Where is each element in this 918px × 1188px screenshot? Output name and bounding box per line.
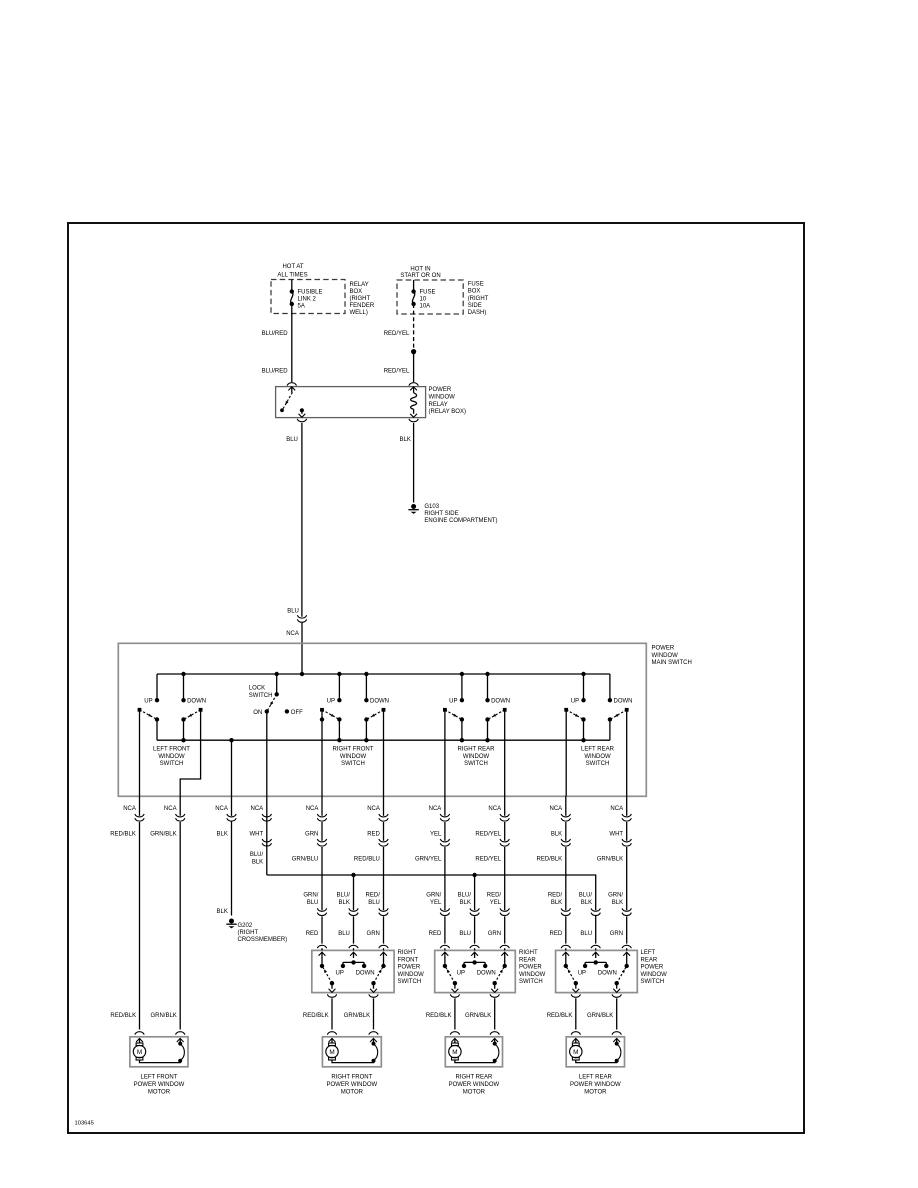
svg-text:BLU/: BLU/ [250, 852, 264, 858]
wire: DOWN contact to common (right front) [365, 720, 367, 741]
wire: DOWN contact to common (left front) [183, 720, 185, 741]
splice node on RED/YEL wire [411, 349, 416, 354]
svg-text:BLK: BLK [339, 900, 350, 906]
svg-text:START OR ON: START OR ON [400, 273, 440, 279]
left rear power window switch middle input pin [595, 948, 597, 950]
left rear power window motor left pin arrow [572, 1038, 579, 1042]
svg-text:YEL: YEL [430, 900, 442, 906]
node: extra junction on right-front left wire [320, 717, 324, 721]
svg-text:LEFT: LEFT [641, 950, 656, 956]
right rear power window switch box [435, 950, 516, 992]
left front switch: DOWN feed wire [183, 674, 185, 700]
connectors at sub switch inputs [317, 945, 326, 948]
svg-text:OFF: OFF [291, 710, 303, 716]
node: DOWN tap on bus (right rear) [485, 672, 489, 676]
wire: UP contact to common (right rear) [461, 720, 463, 741]
right front switch: DOWN arm [382, 708, 386, 712]
svg-text:RED/YEL: RED/YEL [475, 856, 501, 862]
svg-text:DOWN: DOWN [491, 698, 510, 704]
svg-text:RED/YEL: RED/YEL [475, 831, 501, 837]
wire BLU/BLK drop to right rear switch [474, 875, 476, 910]
right rear switch: UP arm [443, 708, 447, 712]
right front power window motor armature symbol M [329, 1043, 336, 1046]
wire BLU/RED from fusible link to relay [291, 304, 293, 382]
node: UP tap on bus (right rear) [460, 672, 464, 676]
svg-text:RIGHT: RIGHT [398, 950, 417, 956]
right front power window switch left input pin [321, 948, 323, 950]
svg-text:DOWN: DOWN [356, 970, 375, 976]
svg-text:SWITCH: SWITCH [641, 979, 665, 985]
relay coil [411, 393, 417, 409]
connectors at right front power window switch outputs [327, 994, 336, 997]
svg-text:GRN/BLK: GRN/BLK [597, 856, 623, 862]
svg-text:BLU: BLU [307, 900, 319, 906]
lock switch ON contact [265, 709, 269, 713]
left front power window motor left pin arrow [136, 1038, 143, 1042]
svg-text:UP: UP [457, 970, 465, 976]
svg-text:BLK: BLK [612, 900, 623, 906]
left rear power window switch right arm [617, 967, 626, 983]
right rear power window switch DOWN contact [483, 964, 487, 968]
svg-text:GRN: GRN [610, 931, 623, 937]
fuse 10 10A [411, 289, 415, 293]
right rear power window motor internal wire [455, 1060, 495, 1063]
inline connectors row 2 (wires 4-10) [262, 839, 271, 842]
ground G103 [411, 504, 416, 509]
right front power window switch UP/DOWN feed bar [343, 962, 364, 965]
right front switch: UP terminal [337, 698, 341, 702]
svg-text:BLU: BLU [287, 609, 299, 615]
svg-text:M: M [137, 1049, 142, 1056]
right rear switch: UP common contact [460, 717, 464, 721]
left rear power window switch UP contact [583, 964, 587, 968]
connectors at left rear power window switch outputs [571, 994, 580, 997]
pin arrow out of relay (BLU out) [301, 410, 303, 414]
left rear switch: UP feed wire [583, 674, 585, 700]
right rear power window switch left input pin [444, 948, 446, 950]
node: UP tap on bus (left rear) [581, 672, 585, 676]
wire: lock switch ON to box exit [266, 711, 268, 875]
svg-text:RED/: RED/ [487, 893, 502, 899]
relay contact (NC) [280, 408, 284, 412]
pin arrow into relay (left) [288, 387, 295, 391]
svg-text:LINK 2: LINK 2 [298, 297, 317, 303]
connectors at left rear power window motor inputs [571, 1032, 580, 1035]
left front switch: UP common contact [155, 717, 159, 721]
svg-text:(RIGHT: (RIGHT [350, 296, 371, 302]
svg-text:WINDOW: WINDOW [158, 754, 185, 760]
wire NCA into main switch [301, 623, 303, 674]
svg-text:LEFT FRONT: LEFT FRONT [153, 747, 190, 753]
svg-text:RELAY: RELAY [429, 402, 448, 408]
svg-text:NCA: NCA [610, 806, 623, 812]
left front switch: UP terminal [155, 698, 159, 702]
svg-text:BOX: BOX [350, 289, 363, 295]
node: BLK tap on common [229, 738, 233, 742]
left front switch: DOWN common contact [181, 717, 185, 721]
svg-text:G202: G202 [238, 923, 253, 929]
node: DOWN on common (left front) [181, 738, 185, 742]
wire RED/BLK to left rear switch [565, 796, 567, 816]
right front power window switch right input contact [381, 964, 385, 968]
left front switch: DOWN arm [199, 708, 203, 712]
svg-text:BLK: BLK [217, 831, 228, 837]
svg-text:SWITCH: SWITCH [160, 761, 184, 767]
left front power window motor box [130, 1037, 188, 1067]
left rear switch: DOWN common contact [608, 717, 612, 721]
bus wire inside main switch [157, 673, 610, 675]
svg-text:RED: RED [550, 931, 563, 937]
left rear power window switch right input pin [626, 948, 628, 950]
wire GRN/BLU to right front switch [321, 796, 323, 816]
right front power window switch left input contact [320, 964, 324, 968]
lock switch OFF contact [285, 709, 289, 713]
svg-text:UP: UP [336, 970, 344, 976]
svg-text:RED/BLK: RED/BLK [303, 1013, 329, 1019]
wire GRN/BLK to left rear switch [626, 796, 628, 816]
right front switch: UP arm [320, 708, 324, 712]
svg-text:DOWN: DOWN [187, 698, 206, 704]
svg-text:UP: UP [327, 698, 335, 704]
right front power window motor right pin arrow [370, 1038, 377, 1042]
fuse box (right side dash) dashed box [397, 280, 463, 314]
svg-text:DOWN: DOWN [370, 698, 389, 704]
svg-text:GRN: GRN [488, 931, 501, 937]
right front power window switch left output pin [331, 983, 333, 989]
right rear power window switch right input contact [503, 964, 507, 968]
left rear power window switch right output contact [615, 981, 619, 985]
svg-text:SWITCH: SWITCH [398, 979, 422, 985]
svg-text:(RIGHT: (RIGHT [238, 930, 259, 936]
wire BLK from common to ground [231, 740, 233, 816]
svg-text:(RELAY BOX): (RELAY BOX) [429, 409, 466, 415]
right front power window motor left pin arrow [329, 1038, 336, 1042]
svg-text:RED: RED [306, 931, 319, 937]
BLU/BLK distribution wire [267, 875, 596, 944]
svg-text:RED/BLK: RED/BLK [537, 856, 563, 862]
right rear power window motor box [445, 1037, 502, 1067]
right front power window motor box [322, 1037, 381, 1067]
wire: left-rear outer wires inside box [565, 710, 567, 796]
svg-text:HOT IN: HOT IN [410, 267, 430, 273]
wire BLU/BLK drop to right front switch [353, 875, 355, 910]
right rear power window switch right input pin [504, 948, 506, 950]
node: lock switch tap on bus [275, 672, 279, 676]
right front power window motor rotation arc [374, 1044, 378, 1060]
wire: right-front outer wires inside box [321, 710, 323, 796]
svg-text:SWITCH: SWITCH [519, 979, 543, 985]
right rear power window switch right output pin [494, 983, 496, 989]
left front switch: UP feed wire [156, 674, 158, 700]
right front power window motor internal wire [332, 1060, 374, 1063]
right rear switch: DOWN feed wire [487, 674, 489, 700]
wire: left-front motor wire (left) inside box [139, 710, 141, 796]
page border frame [68, 223, 804, 1133]
svg-text:POWER: POWER [519, 965, 542, 971]
svg-text:BLU/RED: BLU/RED [262, 331, 289, 337]
inline connectors row 1 [135, 814, 144, 817]
node: BLU/BLK tap to right rear [472, 873, 476, 877]
left rear power window motor internal wire [576, 1060, 617, 1063]
relay output contact [300, 408, 304, 412]
right front power window switch right arm [374, 967, 383, 983]
svg-text:BLU/: BLU/ [579, 893, 593, 899]
svg-text:(RIGHT: (RIGHT [468, 296, 489, 302]
svg-text:MOTOR: MOTOR [463, 1090, 486, 1096]
svg-text:RED: RED [367, 831, 380, 837]
right rear power window switch middle input pin [474, 948, 476, 950]
node: DOWN on common (right front) [364, 738, 368, 742]
svg-text:RED/BLK: RED/BLK [110, 831, 136, 837]
right rear switch: DOWN terminal [485, 698, 489, 702]
svg-text:WINDOW: WINDOW [641, 972, 668, 978]
svg-text:GRN/BLK: GRN/BLK [150, 1013, 176, 1019]
left rear switch: UP arm [564, 708, 568, 712]
left rear power window switch right output pin [616, 983, 618, 989]
connector at relay pin (BLK out) [409, 419, 418, 422]
right front switch: UP common contact [337, 717, 341, 721]
svg-text:MAIN SWITCH: MAIN SWITCH [652, 660, 692, 666]
svg-text:10: 10 [420, 297, 427, 303]
lock switch arm [268, 694, 277, 710]
right front power window switch right output contact [371, 981, 375, 985]
left rear power window switch DOWN contact [604, 964, 608, 968]
left rear power window switch right input contact [625, 964, 629, 968]
left front power window motor right pin arrow [177, 1038, 184, 1042]
svg-text:POWER: POWER [652, 646, 675, 652]
right rear power window motor armature symbol M [452, 1043, 459, 1046]
svg-text:NCA: NCA [164, 806, 177, 812]
svg-text:POWER WINDOW: POWER WINDOW [327, 1082, 378, 1088]
left rear power window motor box [566, 1037, 624, 1067]
left rear switch: DOWN arm [625, 708, 629, 712]
left rear switch: DOWN terminal [608, 698, 612, 702]
connectors at right rear power window motor inputs [450, 1032, 459, 1035]
wire BLK from relay to ground [413, 423, 415, 503]
wire: DOWN contact to common (left rear) [609, 720, 611, 741]
right rear switch: DOWN common contact [485, 717, 489, 721]
svg-text:BLU/RED: BLU/RED [262, 369, 289, 375]
right front power window switch box [312, 950, 394, 992]
wire RED/BLK switch to motor [331, 998, 333, 1029]
svg-text:UP: UP [571, 698, 579, 704]
svg-text:WINDOW: WINDOW [584, 754, 611, 760]
svg-text:RED/BLK: RED/BLK [547, 1013, 573, 1019]
svg-text:RIGHT: RIGHT [519, 950, 538, 956]
svg-text:NCA: NCA [215, 806, 228, 812]
connector at relay pin (BLU/RED in) [287, 383, 296, 386]
lock switch input contact [275, 692, 279, 696]
svg-text:RIGHT FRONT: RIGHT FRONT [331, 1075, 372, 1081]
svg-text:NCA: NCA [251, 806, 264, 812]
wire GRN/BLK switch to motor [373, 998, 375, 1029]
svg-text:SWITCH: SWITCH [249, 693, 273, 699]
svg-text:DOWN: DOWN [598, 970, 617, 976]
svg-text:UP: UP [449, 698, 457, 704]
svg-text:POWER WINDOW: POWER WINDOW [134, 1082, 185, 1088]
svg-text:BLU: BLU [338, 931, 350, 937]
svg-text:WINDOW: WINDOW [463, 754, 490, 760]
wire: UP contact to common (left rear) [583, 720, 585, 741]
wire: right-rear outer wires inside box [444, 710, 446, 796]
svg-text:GRN/: GRN/ [303, 893, 318, 899]
wire: hot feed into fusible link [291, 280, 293, 292]
svg-text:BLK: BLK [400, 437, 411, 443]
svg-text:WELL): WELL) [350, 310, 368, 316]
svg-text:NCA: NCA [306, 806, 319, 812]
svg-text:FRONT: FRONT [398, 957, 419, 963]
svg-text:MOTOR: MOTOR [148, 1090, 171, 1096]
svg-text:103645: 103645 [75, 1121, 94, 1127]
wire RED/YEL to right rear switch [504, 796, 506, 816]
node: DOWN tap on bus (right front) [364, 672, 368, 676]
svg-text:ON: ON [253, 710, 262, 716]
connector at relay pin (RED/YEL in) [409, 383, 418, 386]
power window relay box [276, 387, 426, 418]
svg-text:BLK: BLK [551, 831, 562, 837]
left rear power window motor armature symbol M [572, 1043, 579, 1046]
right rear power window switch left output contact [453, 981, 457, 985]
svg-text:FUSE: FUSE [420, 290, 436, 296]
svg-text:GRN/BLK: GRN/BLK [150, 831, 176, 837]
wire RED/BLU to right front switch [383, 796, 385, 816]
right rear switch: UP terminal [460, 698, 464, 702]
svg-text:REAR: REAR [641, 957, 658, 963]
right front switch: UP feed wire [338, 674, 340, 700]
svg-text:RIGHT REAR: RIGHT REAR [458, 747, 496, 753]
wire RED/YEL from splice to relay [413, 352, 415, 382]
svg-text:LEFT REAR: LEFT REAR [579, 1075, 613, 1081]
pin arrow into relay (right) [410, 387, 417, 391]
svg-text:DASH): DASH) [468, 310, 487, 316]
left rear power window switch left input pin [565, 948, 567, 950]
svg-text:RED/: RED/ [366, 893, 381, 899]
right front power window switch right output pin [373, 983, 375, 989]
svg-text:NCA: NCA [123, 806, 136, 812]
svg-text:WHT: WHT [609, 831, 623, 837]
svg-text:WINDOW: WINDOW [519, 972, 546, 978]
svg-text:ALL TIMES: ALL TIMES [277, 272, 307, 278]
right rear power window motor rotation arc [495, 1044, 499, 1060]
wire: UP contact to common (right front) [338, 720, 340, 741]
svg-text:POWER WINDOW: POWER WINDOW [449, 1082, 500, 1088]
svg-text:POWER WINDOW: POWER WINDOW [570, 1082, 621, 1088]
right front switch: DOWN feed wire [365, 674, 367, 700]
svg-text:UP: UP [578, 970, 586, 976]
connectors at right front power window motor inputs [327, 1032, 336, 1035]
svg-text:WINDOW: WINDOW [429, 395, 456, 401]
fusible link 2 5A [290, 289, 294, 293]
svg-text:BLU: BLU [580, 931, 592, 937]
right rear switch: UP feed wire [461, 674, 463, 700]
left front power window motor internal wire [140, 1060, 181, 1063]
svg-text:RELAY: RELAY [350, 282, 369, 288]
svg-text:M: M [452, 1049, 457, 1056]
left rear power window motor rotation arc [617, 1044, 621, 1060]
right rear power window motor left pin arrow [452, 1038, 459, 1042]
wire RED/BLK to left front motor [139, 796, 141, 816]
svg-text:YEL: YEL [430, 831, 442, 837]
svg-text:WINDOW: WINDOW [398, 972, 425, 978]
svg-text:FUSE: FUSE [468, 281, 484, 287]
svg-text:REAR: REAR [519, 957, 536, 963]
right rear power window switch left input contact [443, 964, 447, 968]
wire GRN/BLK switch to motor [616, 998, 618, 1029]
svg-text:RED/BLK: RED/BLK [426, 1013, 452, 1019]
svg-text:M: M [573, 1049, 578, 1056]
svg-text:BLU: BLU [459, 931, 471, 937]
right front power window switch left output contact [330, 981, 334, 985]
left rear power window motor right pin arrow [613, 1038, 620, 1042]
svg-text:BLU/: BLU/ [337, 893, 351, 899]
connectors at right rear power window switch outputs [450, 994, 459, 997]
svg-text:GRN: GRN [305, 831, 318, 837]
svg-text:NCA: NCA [286, 631, 299, 637]
svg-text:BOX: BOX [468, 289, 481, 295]
svg-text:BLU: BLU [286, 437, 298, 443]
wire: hot feed into fuse 10 [413, 280, 415, 291]
right front switch: DOWN common contact [364, 717, 368, 721]
right rear power window switch right arm [495, 967, 504, 983]
svg-text:BLU: BLU [368, 900, 380, 906]
svg-text:RED/BLU: RED/BLU [354, 856, 380, 862]
wire GRN/YEL to right rear switch [444, 796, 446, 816]
right front switch: DOWN terminal [364, 698, 368, 702]
svg-text:RED: RED [429, 931, 442, 937]
wire RED/BLK switch to motor [575, 998, 577, 1029]
svg-text:NCA: NCA [429, 806, 442, 812]
svg-text:YEL: YEL [490, 900, 502, 906]
svg-text:WHT: WHT [250, 831, 264, 837]
svg-text:SWITCH: SWITCH [586, 761, 610, 767]
svg-text:DOWN: DOWN [614, 698, 633, 704]
node: BLU/BLK tap to right front [351, 873, 355, 877]
svg-text:GRN/: GRN/ [426, 893, 441, 899]
common return wire inside main switch [157, 739, 610, 741]
svg-text:G103: G103 [424, 504, 439, 510]
left rear switch: DOWN feed wire [609, 674, 611, 700]
svg-text:GRN/BLK: GRN/BLK [465, 1013, 491, 1019]
wire RED/YEL dashed segment below fuse box [413, 304, 415, 349]
node: DOWN tap on bus (left front) [181, 672, 185, 676]
svg-text:POWER: POWER [398, 965, 421, 971]
right rear power window switch left arm [446, 967, 455, 983]
svg-text:DOWN: DOWN [477, 970, 496, 976]
svg-text:RED/: RED/ [548, 893, 563, 899]
svg-text:LOCK: LOCK [249, 686, 265, 692]
svg-text:MOTOR: MOTOR [341, 1090, 364, 1096]
node: UP on common (right front) [337, 738, 341, 742]
svg-text:BLK: BLK [460, 900, 471, 906]
svg-text:WINDOW: WINDOW [652, 653, 679, 659]
svg-text:NCA: NCA [550, 806, 563, 812]
pin arrow out of relay (BLK) [413, 409, 415, 414]
svg-text:POWER: POWER [429, 387, 452, 393]
svg-text:GRN/BLK: GRN/BLK [344, 1013, 370, 1019]
svg-text:GRN/YEL: GRN/YEL [415, 856, 442, 862]
svg-text:POWER: POWER [641, 965, 664, 971]
left front power window motor brush terminal nodes [178, 1042, 182, 1046]
wire BLU from relay down to main switch connector [301, 423, 303, 617]
left rear power window switch left output contact [574, 981, 578, 985]
svg-text:GRN/BLK: GRN/BLK [587, 1013, 613, 1019]
relay box (right fender well) dashed box [271, 280, 345, 314]
left rear switch: UP common contact [581, 717, 585, 721]
node: supply joins bus [300, 672, 304, 676]
right rear power window switch left output pin [454, 983, 456, 989]
svg-text:RED/YEL: RED/YEL [384, 331, 410, 337]
inline connectors row 3 [317, 908, 326, 911]
